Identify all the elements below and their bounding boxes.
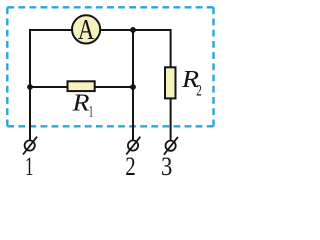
svg-text:1: 1 bbox=[89, 104, 94, 121]
wire: R1 branch between left wire and middle wire bbox=[30, 86, 133, 88]
terminal 2 bbox=[126, 137, 140, 155]
label R2 bbox=[181, 66, 202, 100]
svg-text:2: 2 bbox=[196, 80, 202, 99]
node: R1 right junction bbox=[130, 84, 136, 90]
wire: terminal 1 up left side and across to ammeter bbox=[30, 30, 72, 141]
svg-text:2: 2 bbox=[125, 151, 136, 177]
wire: R2 bottom to terminal 3 bbox=[170, 98, 172, 141]
wire: middle vertical from top node down to terminal 2 bbox=[132, 30, 134, 141]
terminal 3 bbox=[164, 137, 178, 155]
node: top junction bbox=[130, 27, 136, 33]
wire: ammeter to top-right corner down to R2 top bbox=[100, 30, 170, 68]
svg-text:1: 1 bbox=[25, 151, 34, 177]
dashed enclosure boundary bbox=[7, 7, 213, 126]
node: R1 left junction bbox=[27, 84, 33, 90]
terminal 1 bbox=[23, 137, 37, 155]
svg-text:3: 3 bbox=[161, 151, 172, 177]
svg-text:A: A bbox=[78, 15, 95, 46]
resistor R1 bbox=[68, 81, 95, 91]
ammeter A1 bbox=[72, 15, 100, 46]
resistor R2 bbox=[165, 67, 176, 98]
label R1 bbox=[71, 89, 93, 120]
svg-text:R: R bbox=[71, 89, 89, 116]
